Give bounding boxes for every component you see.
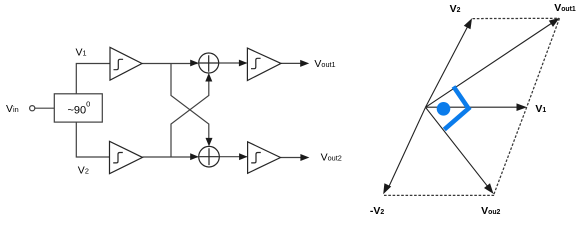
dashed construction line Vout1 tip to V1 tip: [527, 18, 560, 107]
arrowhead into amplifier A3: [239, 60, 248, 67]
limiter amplifier A3 (top second stage): [247, 48, 281, 80]
arrowhead output Vout2: [300, 154, 309, 161]
arrowhead into summer S1 bottom: [205, 73, 212, 82]
vector Vout1 line: [426, 21, 556, 107]
svg-text:Vin: Vin: [6, 103, 19, 115]
wire Vin to phase shifter: [35, 107, 55, 109]
wire A1 output to summer S1: [142, 63, 198, 65]
summer S1 plus sign: [199, 55, 218, 72]
wire A4 output Vout2: [281, 157, 302, 159]
wire summer S1 to amplifier A3: [219, 62, 247, 64]
arrowhead into summer S1 left: [190, 60, 199, 67]
blue right-angle marker: [444, 87, 468, 130]
limiter symbol in A3: [251, 58, 261, 68]
wire summer S2 to amplifier A4: [219, 156, 246, 158]
arrowhead into amplifier A4: [239, 153, 248, 160]
limiter symbol in A2: [113, 153, 123, 163]
wire A2 output to summer S2: [143, 156, 198, 158]
input port Vin terminal circle: [30, 106, 35, 111]
arrowhead vector Vout1: [549, 18, 560, 27]
limiter amplifier A1 (top first stage): [110, 47, 142, 80]
summer S2 circle: [199, 146, 220, 167]
phasor diagram: [388, 21, 555, 189]
wire phase shifter top to V1 line: [76, 64, 110, 94]
blue phase dot marker: [437, 102, 451, 116]
arrowhead vector V2: [464, 18, 472, 29]
phase shifter block ~90deg: [54, 94, 102, 122]
svg-text:Vout2: Vout2: [321, 152, 342, 164]
arrowhead into summer S2 left: [190, 153, 199, 160]
limiter symbol in A4: [251, 153, 261, 163]
vector V2 line: [426, 23, 470, 107]
arrowhead vector V1: [517, 103, 528, 111]
vector -V2 line: [388, 107, 426, 188]
arrowhead into summer S2 top: [206, 138, 213, 147]
arrowhead vector Vou2: [484, 183, 494, 194]
summer S2 plus sign: [199, 148, 219, 165]
dashed construction line -V2 tip to Vou2 tip: [384, 194, 495, 196]
svg-text:V2: V2: [78, 164, 89, 176]
wire cross branch from bottom line up to summer S1: [171, 82, 209, 158]
vector V1 line: [426, 106, 522, 108]
dashed construction line V2 tip to Vout1 tip: [473, 17, 560, 19]
summer S1 circle: [199, 53, 219, 73]
dashed construction line V1 tip to Vou2 tip: [494, 107, 527, 194]
limiter amplifier A4 (bottom second stage): [248, 142, 281, 174]
wire A3 output Vout1: [281, 62, 301, 64]
vector Vou2 line: [426, 107, 490, 189]
svg-text:Vout1: Vout1: [314, 58, 335, 70]
svg-text:V1: V1: [76, 46, 87, 58]
arrowhead vector -V2: [383, 183, 391, 194]
wire cross branch from top line down to summer S2: [171, 64, 209, 140]
limiter symbol in A1: [114, 59, 124, 69]
wire phase shifter bottom to V2 line: [76, 122, 109, 157]
arrowhead output Vout1: [300, 60, 309, 67]
limiter amplifier A2 (bottom first stage): [110, 141, 143, 173]
